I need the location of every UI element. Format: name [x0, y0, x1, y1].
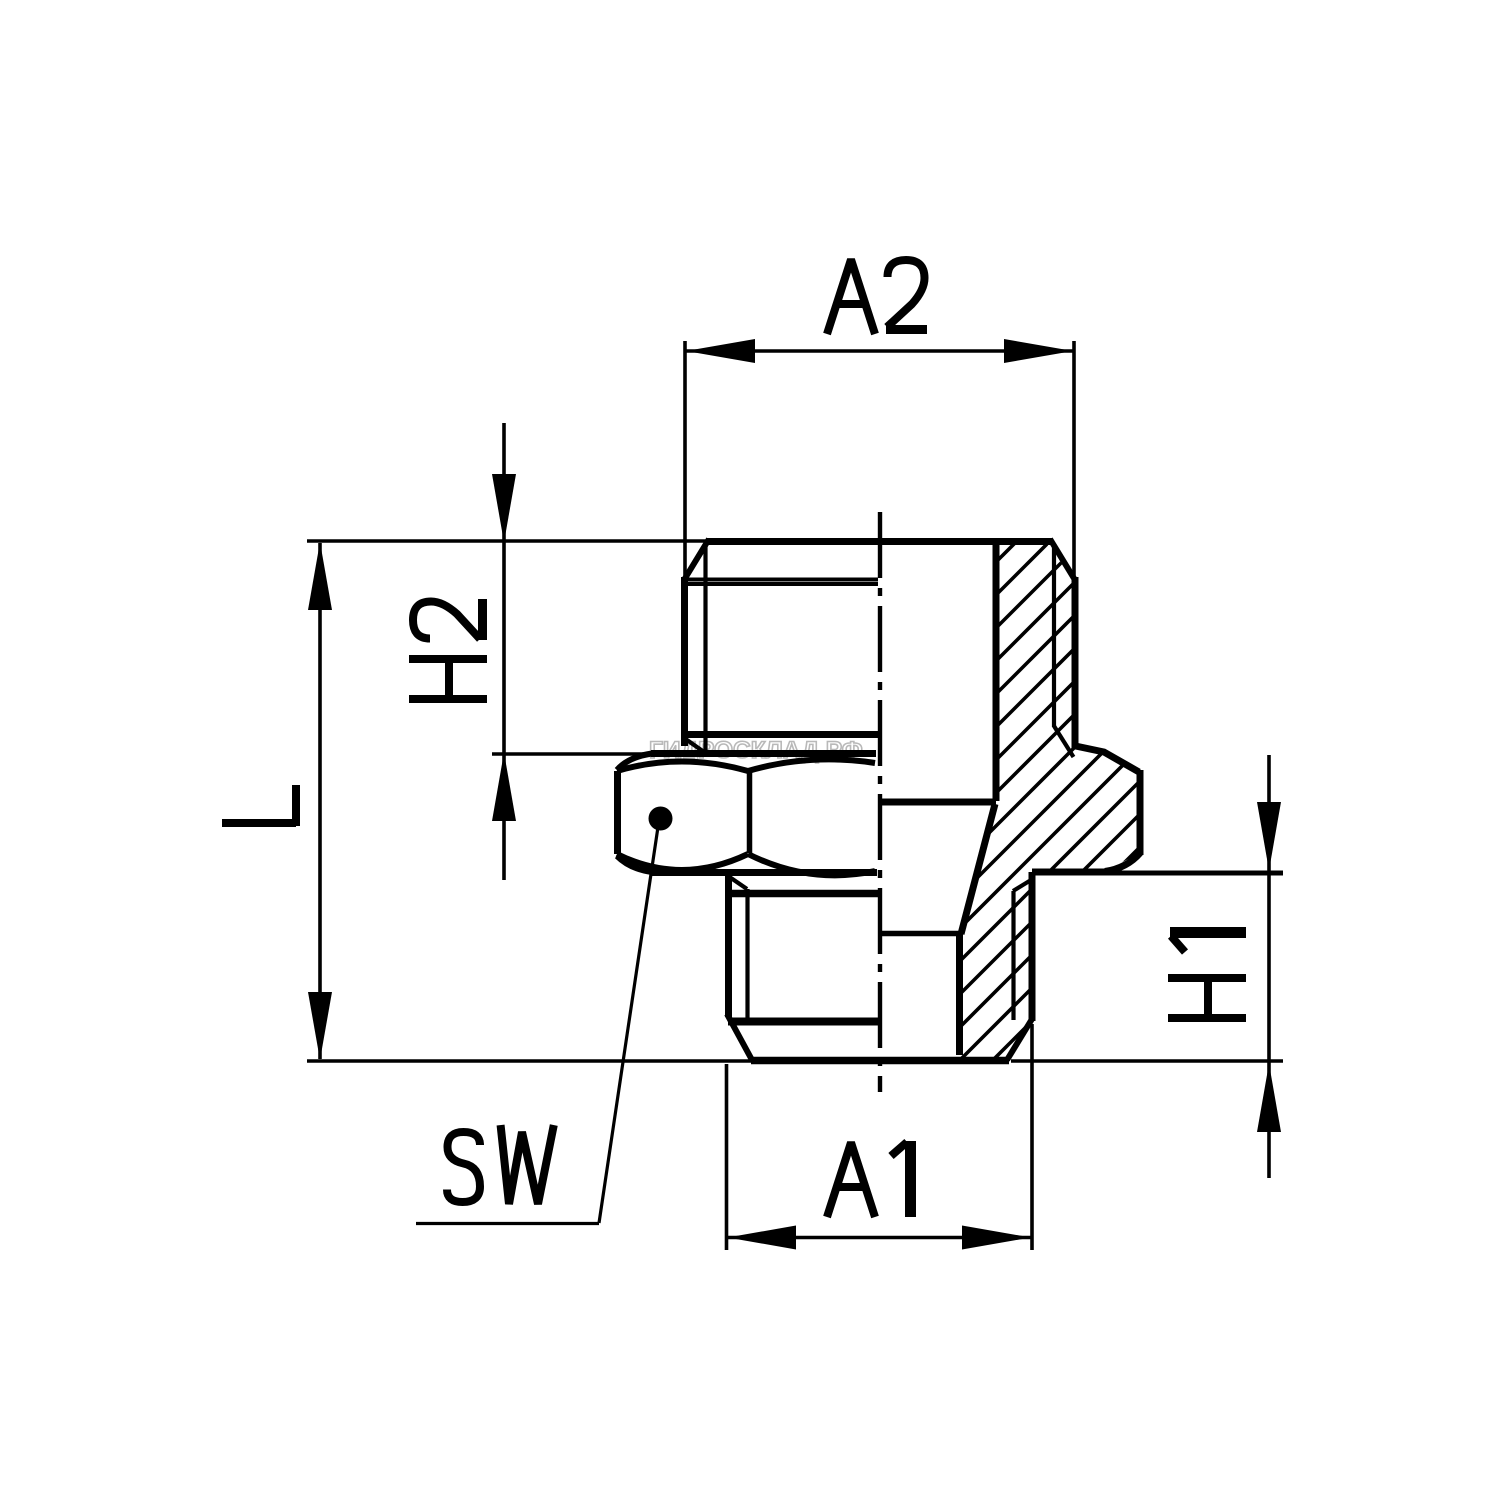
section hatching [445, 520, 1500, 1080]
hex top face line [651, 750, 876, 757]
upper thread runout line [687, 731, 878, 738]
hex bottom chamfer arcs [617, 854, 875, 875]
upper thread root lines [687, 545, 1074, 757]
dimension A2 extension and line [685, 341, 1074, 578]
SW leader line [416, 827, 658, 1224]
lower thread outline [727, 872, 1032, 1061]
label L [222, 785, 296, 826]
dimension L line [307, 543, 751, 1061]
dimension A2 arrows [686, 339, 1073, 363]
label SW [447, 1129, 553, 1204]
hex top chamfer arcs [617, 754, 875, 772]
upper thread crest double line [684, 580, 878, 585]
lower thread crest line [728, 1018, 878, 1026]
upper thread outline [684, 539, 1075, 748]
SW leader dot [649, 807, 673, 831]
lower thread runout line [730, 890, 878, 898]
label H1 [1168, 933, 1246, 1019]
label H2 [409, 599, 487, 699]
dimension H2 extension and line [307, 423, 710, 880]
label A2 [827, 260, 927, 335]
lower thread root lines [730, 877, 1032, 1021]
dimension A1 extension and line [727, 1024, 1033, 1250]
hex corner edges [618, 770, 1141, 855]
hex sectioned right outline [961, 746, 1140, 934]
dimension H2 arrows [492, 474, 516, 821]
hex bottom face line [652, 869, 877, 876]
bore section edge upper [878, 545, 996, 802]
bore section edge lower [879, 933, 960, 1055]
dimension H1 arrows [1257, 802, 1281, 1132]
dimension H1 extension and line [1011, 755, 1283, 1178]
dimension L arrows [308, 542, 332, 1060]
dimension A1 arrows [728, 1226, 1032, 1250]
centerline [878, 512, 882, 1092]
label A1 [827, 1141, 911, 1217]
